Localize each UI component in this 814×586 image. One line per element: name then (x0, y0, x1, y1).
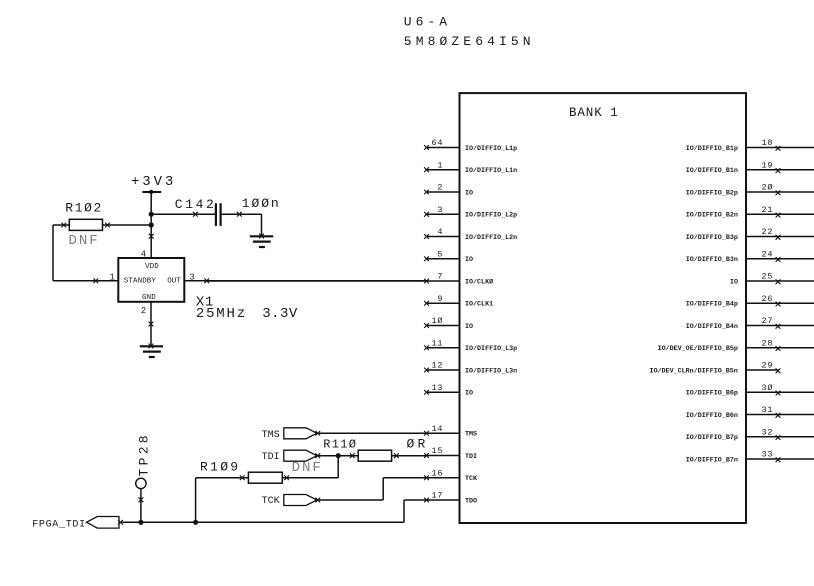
net tag TMS (262, 428, 321, 441)
pin 21 (IO/DIFFIO_B2n) of U6, wire + no-connect x (686, 205, 814, 220)
svg-text:U6-A: U6-A (404, 15, 451, 30)
svg-text:2Ø: 2Ø (762, 183, 774, 193)
svg-text:2: 2 (141, 306, 146, 316)
pin 4 (IO/DIFFIO_L2n) of U6, wire + no-connect x (424, 227, 517, 242)
svg-text:4: 4 (141, 250, 146, 260)
pin 19 (IO/DIFFIO_B1n) of U6, wire + no-connect x (686, 160, 814, 175)
svg-text:IO/DIFFIO_B2n: IO/DIFFIO_B2n (686, 212, 738, 220)
svg-text:R11Ø: R11Ø (323, 438, 357, 452)
wire: TP28 down to FPGA_TDI net (139, 489, 144, 523)
svg-text:19: 19 (762, 160, 774, 170)
wire: TCK tag up to U6 pin 16 (317, 478, 427, 500)
pin 17 (TDO) of U6, wire + no-connect x (424, 491, 477, 506)
svg-text:IO/DIFFIO_B4n: IO/DIFFIO_B4n (686, 323, 738, 331)
svg-text:IO/DIFFIO_B1n: IO/DIFFIO_B1n (686, 167, 738, 175)
svg-text:IO/DIFFIO_L3p: IO/DIFFIO_L3p (465, 345, 517, 353)
value label X1 25MHz 3.3V (196, 295, 298, 322)
svg-text:17: 17 (432, 491, 444, 501)
svg-text:5: 5 (437, 249, 443, 259)
svg-text:16: 16 (432, 468, 444, 478)
svg-text:26: 26 (762, 294, 774, 304)
oscillator X1 25MHz 3.3V body (118, 258, 184, 302)
pin 3 (IO/DIFFIO_L2p) of U6, wire + no-connect x (424, 205, 517, 220)
net tag TCK (262, 495, 321, 508)
wire: R109 right up to TDI junction (282, 456, 338, 480)
junction: TDI net / R109 branch (336, 453, 341, 458)
ground symbol (C142) (250, 234, 273, 247)
svg-text:22: 22 (762, 227, 774, 237)
svg-text:TCK: TCK (262, 496, 280, 507)
svg-text:IO/DIFFIO_B6p: IO/DIFFIO_B6p (686, 390, 738, 398)
wire: X1 OUT to U6 pin 7 IO/CLK0 (184, 278, 426, 283)
pin 13 (IO) of U6, wire + no-connect x (424, 383, 473, 398)
pin 1 (STANDBY) number of X1 (110, 272, 115, 282)
svg-text:R1Ø9: R1Ø9 (200, 459, 240, 474)
pin 2 (IO) of U6, wire + no-connect x (424, 183, 473, 198)
pin 15 (TDI) of U6, wire + no-connect x (424, 446, 477, 461)
svg-text:GND: GND (142, 294, 156, 302)
svg-text:21: 21 (762, 205, 774, 215)
svg-text:DNF: DNF (69, 233, 100, 249)
pin 30 (IO/DIFFIO_B6p) of U6, wire + no-connect x (686, 383, 814, 398)
pin 24 (IO/DIFFIO_B3n) of U6, wire + no-connect x (686, 249, 814, 264)
svg-text:IO/DEV_CLRn/DIFFIO_B5n: IO/DEV_CLRn/DIFFIO_B5n (650, 367, 738, 375)
pin 29 (IO/DEV_CLRn/DIFFIO_B5n) of U6, wire + no-connect x (650, 361, 781, 376)
svg-text:4: 4 (437, 227, 443, 237)
pin 26 (IO/DIFFIO_B4p) of U6, wire + no-connect x (686, 294, 814, 309)
pin 2 (GND) number of X1 (141, 306, 146, 316)
svg-text:11: 11 (432, 338, 444, 348)
svg-text:IO/DIFFIO_B1p: IO/DIFFIO_B1p (686, 145, 738, 153)
svg-text:33: 33 (762, 450, 774, 460)
svg-text:3.3V: 3.3V (262, 306, 298, 322)
svg-text:IO: IO (465, 189, 473, 197)
svg-text:13: 13 (432, 383, 444, 393)
svg-text:IO: IO (465, 390, 473, 398)
svg-text:1ØØn: 1ØØn (242, 196, 281, 211)
net tag TDI (262, 450, 321, 463)
svg-text:IO/DIFFIO_L2p: IO/DIFFIO_L2p (465, 212, 517, 220)
pin 14 (TMS) of U6, wire + no-connect x (424, 424, 477, 439)
pin 10 (IO) of U6, wire + no-connect x (424, 316, 473, 331)
pin 1 (IO/DIFFIO_L1n) of U6, wire + no-connect x (424, 160, 517, 175)
svg-text:7: 7 (437, 272, 443, 282)
svg-text:32: 32 (762, 427, 774, 437)
wire: FPGA_TDI net horizontal run (119, 521, 404, 523)
svg-text:1: 1 (610, 106, 618, 120)
pin 3 (OUT) number of X1 (189, 272, 194, 282)
svg-text:2: 2 (437, 183, 443, 193)
wire: +3V3 vertical rail down to X1 VDD (149, 192, 154, 258)
wire: X1 GND down to ground (149, 302, 154, 347)
pin 22 (IO/DIFFIO_B3p) of U6, wire + no-connect x (686, 227, 814, 242)
resistor R102 (DNF) (65, 201, 103, 249)
svg-text:R1Ø2: R1Ø2 (65, 201, 103, 216)
svg-text:IO/DIFFIO_L1n: IO/DIFFIO_L1n (465, 167, 517, 175)
pin 18 (IO/DIFFIO_B1p) of U6, wire + no-connect x (686, 138, 814, 153)
svg-text:IO/CLK1: IO/CLK1 (465, 301, 493, 309)
reference designator U6-A (404, 15, 451, 30)
wire: R102 left down to X1 STANDBY (53, 223, 118, 284)
power symbol +3V3 (131, 174, 176, 194)
wire: R102 right to +3V3 rail (103, 223, 152, 228)
pin 33 (IO/DIFFIO_B7n) of U6, wire + no-connect x (686, 450, 814, 465)
svg-text:25MHz: 25MHz (196, 306, 247, 322)
wire: C142 right plate to ground (222, 212, 262, 237)
pin 31 (IO/DIFFIO_B6n) of U6, wire + no-connect x (686, 405, 814, 420)
svg-text:IO/DIFFIO_B4p: IO/DIFFIO_B4p (686, 301, 738, 309)
svg-text:TMS: TMS (465, 431, 477, 439)
svg-text:OUT: OUT (167, 277, 181, 285)
svg-text:29: 29 (762, 361, 774, 371)
pin 11 (IO/DIFFIO_L3p) of U6, wire + no-connect x (424, 338, 517, 353)
junction: FPGA_TDI / R109 (193, 520, 198, 525)
svg-text:IO/DIFFIO_L2n: IO/DIFFIO_L2n (465, 234, 517, 242)
svg-text:IO/DIFFIO_B6n: IO/DIFFIO_B6n (686, 412, 738, 420)
svg-text:3Ø: 3Ø (762, 383, 774, 393)
svg-text:ØR: ØR (407, 437, 429, 452)
svg-text:15: 15 (432, 446, 444, 456)
svg-text:IO/DIFFIO_B2p: IO/DIFFIO_B2p (686, 189, 738, 197)
wire: rail to C142 left plate (151, 212, 215, 217)
svg-text:3: 3 (437, 205, 443, 215)
svg-text:IO/DIFFIO_B7n: IO/DIFFIO_B7n (686, 456, 738, 464)
svg-text:TCK: TCK (465, 475, 478, 483)
svg-text:BANK: BANK (569, 106, 603, 120)
svg-text:TDI: TDI (262, 452, 280, 463)
svg-text:FPGA_TDI: FPGA_TDI (32, 519, 86, 530)
pin 28 (IO/DEV_OE/DIFFIO_B5p) of U6, wire + no-connect x (658, 338, 814, 353)
svg-text:12: 12 (432, 361, 444, 371)
pin 25 (IO) of U6, wire + no-connect x (730, 272, 814, 287)
wire: R110 right to U6 pin 15 TDI (392, 453, 427, 458)
svg-text:31: 31 (762, 405, 774, 415)
svg-text:+3V3: +3V3 (131, 174, 176, 190)
svg-text:IO/DIFFIO_B3p: IO/DIFFIO_B3p (686, 234, 738, 242)
resistor R110 value 0R (DNF) (292, 437, 429, 476)
svg-text:IO/DIFFIO_B7p: IO/DIFFIO_B7p (686, 434, 738, 442)
svg-text:1Ø: 1Ø (432, 316, 444, 326)
svg-text:24: 24 (762, 249, 774, 259)
svg-text:64: 64 (432, 138, 444, 148)
svg-text:TMS: TMS (262, 430, 280, 441)
junction: rail / C142 branch (149, 212, 154, 217)
pin 4 (VDD) number of X1 (141, 250, 146, 260)
svg-text:27: 27 (762, 316, 774, 326)
wire: U6 pin 17 TDO down to FPGA_TDI net (404, 500, 427, 522)
pin 12 (IO/DIFFIO_L3n) of U6, wire + no-connect x (424, 361, 517, 376)
svg-text:C142: C142 (175, 197, 217, 212)
svg-text:IO/DIFFIO_L3n: IO/DIFFIO_L3n (465, 367, 517, 375)
ground symbol (X1 GND) (140, 344, 163, 357)
svg-text:STANDBY: STANDBY (124, 277, 157, 285)
svg-text:1: 1 (110, 272, 115, 282)
resistor R109 (200, 459, 282, 483)
svg-text:5M8ØZE64I5N: 5M8ØZE64I5N (404, 34, 535, 49)
svg-text:14: 14 (432, 424, 444, 434)
pin 27 (IO/DIFFIO_B4n) of U6, wire + no-connect x (686, 316, 814, 331)
svg-text:IO: IO (730, 278, 738, 286)
svg-text:TP28: TP28 (137, 432, 152, 476)
svg-text:IO: IO (465, 256, 473, 264)
op IC U6 (CPLD 5M80ZE64I5N) BANK 1 body (460, 93, 747, 523)
svg-text:TDO: TDO (465, 497, 477, 505)
svg-text:VDD: VDD (145, 263, 159, 271)
svg-text:28: 28 (762, 338, 774, 348)
svg-text:25: 25 (762, 272, 774, 282)
wire: TMS tag to U6 pin 14 (317, 432, 427, 434)
svg-text:IO/DIFFIO_L1p: IO/DIFFIO_L1p (465, 145, 517, 153)
svg-text:IO: IO (465, 323, 473, 331)
svg-text:18: 18 (762, 138, 774, 148)
pin 7 (IO/CLK0) of U6, wire + no-connect x (207, 272, 493, 287)
capacitor C142 value 100n (175, 196, 281, 226)
junction: FPGA_TDI / TP28 (138, 520, 143, 525)
pin 9 (IO/CLK1) of U6, wire + no-connect x (424, 294, 493, 309)
svg-text:IO/DIFFIO_B3n: IO/DIFFIO_B3n (686, 256, 738, 264)
pin 64 (IO/DIFFIO_L1p) of U6, wire + no-connect x (424, 138, 517, 153)
part number value 5M80ZE64I5N (404, 34, 535, 49)
junction: rail / R102 branch (149, 222, 154, 227)
pin 20 (IO/DIFFIO_B2p) of U6, wire + no-connect x (686, 183, 814, 198)
svg-text:IO/CLKØ: IO/CLKØ (465, 277, 493, 286)
test point TP28 (136, 432, 152, 489)
pin 32 (IO/DIFFIO_B7p) of U6, wire + no-connect x (686, 427, 814, 442)
net tag FPGA_TDI (32, 517, 123, 531)
pin 16 (TCK) of U6, wire + no-connect x (424, 468, 478, 483)
svg-text:1: 1 (437, 160, 443, 170)
svg-text:IO/DEV_OE/DIFFIO_B5p: IO/DEV_OE/DIFFIO_B5p (658, 345, 738, 353)
pin 5 (IO) of U6, wire + no-connect x (424, 249, 473, 264)
svg-text:DNF: DNF (292, 460, 323, 476)
wire: R109 left down to FPGA_TDI net (196, 475, 249, 522)
svg-text:TDI: TDI (465, 453, 477, 461)
svg-text:9: 9 (437, 294, 443, 304)
wire: TDI tag to R110 left (317, 453, 358, 458)
